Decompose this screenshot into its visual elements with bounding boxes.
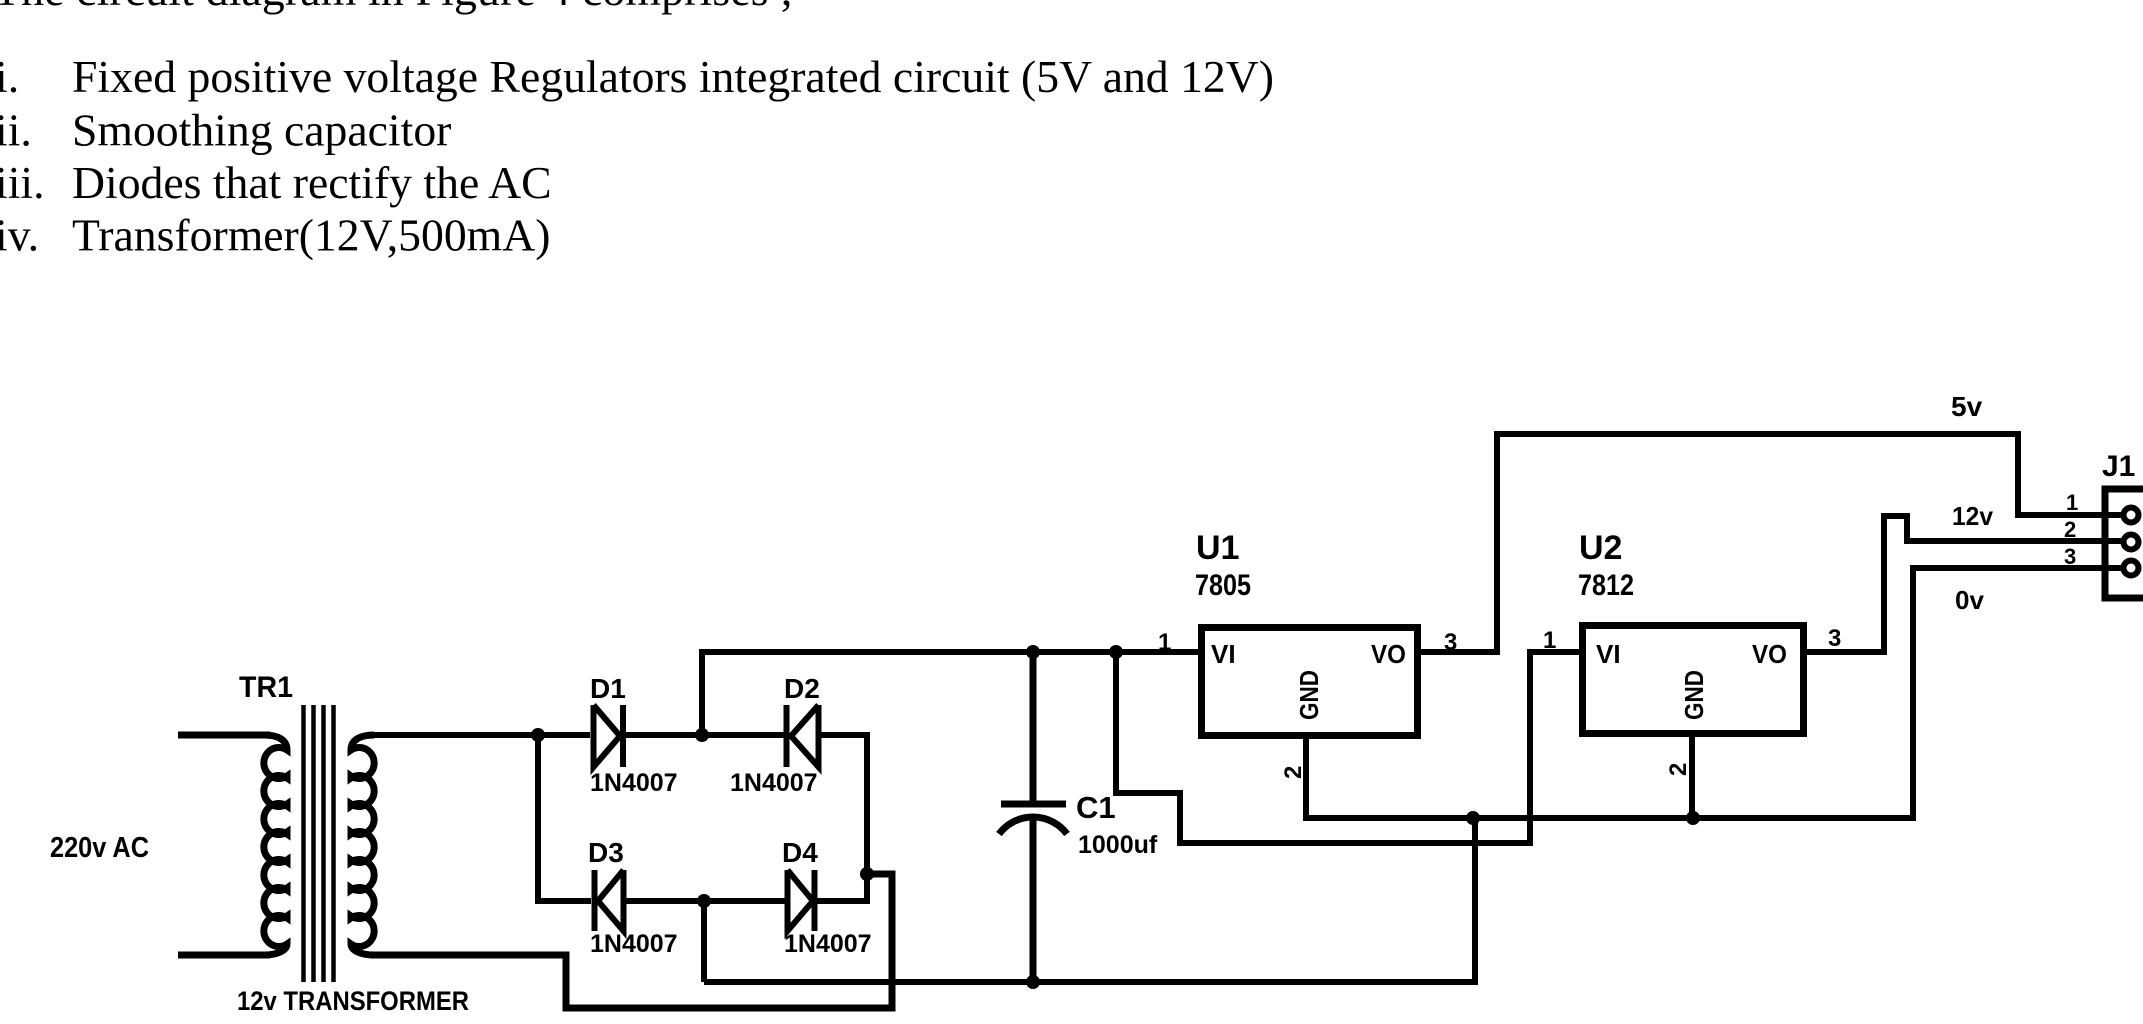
diode D2: [730, 673, 820, 797]
svg-text:VO: VO: [1752, 639, 1787, 669]
svg-text:1: 1: [1543, 627, 1556, 654]
svg-text:iv.: iv.: [0, 210, 39, 261]
svg-text:D1: D1: [590, 673, 626, 704]
svg-text:0v: 0v: [1955, 585, 1984, 615]
node plus junction dot: [695, 728, 709, 742]
svg-text:5v: 5v: [1951, 391, 1983, 422]
regulator U1 7805: [1158, 529, 1457, 779]
node minus junction dot: [697, 894, 711, 908]
transformer core: [304, 705, 334, 982]
J1 pin 2 circle: [2124, 535, 2139, 550]
regulator U2 7812: [1543, 529, 1841, 776]
svg-text:7805: 7805: [1195, 569, 1251, 602]
svg-text:Smoothing capacitor: Smoothing capacitor: [72, 105, 451, 156]
C1 bottom curved plate: [999, 817, 1067, 834]
transformer TR1: [178, 671, 469, 1016]
svg-text:3: 3: [1828, 625, 1841, 652]
U1 box: [1202, 628, 1418, 736]
node C1 bottom junction dot: [1026, 975, 1040, 989]
wire AC1 drop to D3: [538, 735, 591, 901]
svg-text:GND: GND: [1679, 670, 1709, 720]
node AC1 junction dot: [531, 728, 545, 742]
wire plus bus riser and top bus to U1 VI: [702, 652, 1201, 735]
svg-text:D2: D2: [784, 673, 820, 704]
node raw DC branch junction dot: [1109, 645, 1123, 659]
wire D2 anode drop: [818, 735, 867, 874]
J1 pin 3 circle: [2124, 561, 2139, 576]
svg-text:J1: J1: [2102, 450, 2135, 483]
C1 top plate: [1001, 801, 1066, 808]
capacitor C1: [999, 652, 1158, 982]
svg-text:2: 2: [1280, 766, 1307, 779]
wire primary top lead: [178, 732, 270, 739]
svg-text:1N4007: 1N4007: [590, 769, 678, 797]
svg-text:7812: 7812: [1578, 569, 1634, 602]
svg-text:VI: VI: [1596, 639, 1621, 669]
svg-text:D3: D3: [588, 837, 624, 868]
svg-text:Transformer(12V,500mA): Transformer(12V,500mA): [72, 210, 550, 261]
svg-text:Diodes that rectify the AC: Diodes that rectify the AC: [72, 157, 552, 208]
svg-text:TR1: TR1: [239, 671, 293, 704]
wire raw DC feed to U2 VI: [1116, 652, 1582, 843]
svg-text:D4: D4: [782, 837, 818, 868]
svg-text:C1: C1: [1076, 790, 1116, 825]
wire D3 anode to D4 anode: [622, 898, 788, 904]
J1 box: [2105, 489, 2143, 598]
svg-text:1: 1: [1158, 629, 1171, 656]
svg-text:1N4007: 1N4007: [590, 930, 678, 958]
svg-text:ii.: ii.: [0, 105, 32, 156]
svg-text:iii.: iii.: [0, 157, 45, 208]
wire U2 GND drop: [1689, 734, 1695, 818]
svg-text:VI: VI: [1211, 639, 1236, 669]
primary winding: [264, 735, 287, 955]
secondary winding: [351, 735, 374, 955]
wire U1 VO to 5v rail to J1 pin1: [1418, 434, 2126, 652]
wire primary bottom lead: [178, 952, 270, 959]
connector J1: [2064, 450, 2143, 598]
node U2 GND junction dot: [1686, 811, 1700, 825]
svg-text:GND: GND: [1294, 670, 1324, 720]
wire D1 cathode to D2 cathode: [621, 732, 786, 738]
svg-text:U2: U2: [1579, 529, 1622, 567]
svg-text:2: 2: [1665, 763, 1692, 776]
wire C1 top lead: [1030, 652, 1037, 801]
svg-text:1000uf: 1000uf: [1078, 831, 1158, 859]
diode D3: [588, 837, 678, 958]
svg-text:12v TRANSFORMER: 12v TRANSFORMER: [237, 986, 469, 1016]
U2 box: [1583, 626, 1804, 734]
svg-text:12v: 12v: [1952, 501, 1994, 531]
wire AC2 to D4 cathode: [817, 874, 892, 901]
diode D4: [782, 837, 872, 958]
svg-text:220v AC: 220v AC: [50, 832, 149, 864]
svg-text:1: 1: [2066, 490, 2078, 515]
J1 pin 1 circle: [2124, 508, 2139, 523]
diode D1: [590, 673, 678, 797]
svg-text:VO: VO: [1371, 639, 1406, 669]
wire minus drop and bottom bus: [704, 818, 1475, 982]
wire U1 GND drop and ground rail to 0v J1 pin3: [1306, 568, 2126, 818]
svg-text:3: 3: [2064, 544, 2076, 569]
node AC2 junction dot: [860, 867, 874, 881]
svg-text:i.: i.: [0, 51, 19, 102]
svg-text:2: 2: [2064, 517, 2076, 542]
node ground-bus junction dot: [1466, 811, 1480, 825]
node C1 top junction dot: [1026, 645, 1040, 659]
wire secondary top to D1: [370, 732, 590, 738]
wire secondary bottom return: [370, 874, 892, 1008]
svg-text:1N4007: 1N4007: [730, 769, 818, 797]
svg-text:The circuit diagram in Figure: The circuit diagram in Figure 4 comprise…: [0, 0, 793, 15]
wire U2 VO to 12v to J1 pin2: [1804, 516, 2126, 652]
svg-text:1N4007: 1N4007: [784, 930, 872, 958]
svg-text:U1: U1: [1196, 529, 1239, 567]
wire C1 bottom lead: [1030, 818, 1037, 982]
svg-text:Fixed positive voltage Regulat: Fixed positive voltage Regulators integr…: [72, 51, 1274, 102]
